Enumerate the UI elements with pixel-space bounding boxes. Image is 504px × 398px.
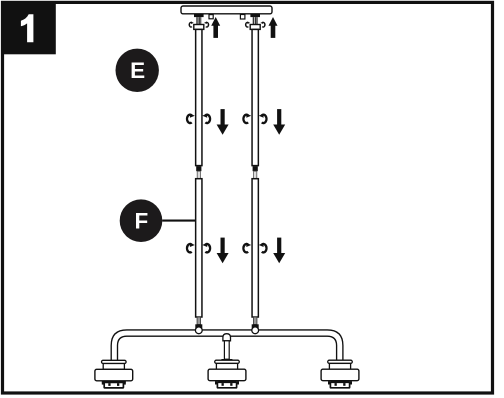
rod 1 joint collar bbox=[196, 166, 201, 171]
down arrow upper at rod 1 bbox=[217, 109, 229, 135]
rod 2 lower segment bbox=[252, 179, 258, 317]
centre stem bbox=[224, 341, 229, 359]
hole square left of rod 2 bbox=[240, 15, 245, 20]
rod 2 threaded stem bbox=[253, 17, 258, 24]
up arrow at rod 2 bbox=[269, 17, 278, 38]
svg-text:E: E bbox=[130, 58, 145, 83]
rod 1 threaded tip bbox=[197, 317, 201, 325]
down arrow upper at rod 2 bbox=[273, 109, 285, 135]
svg-text:F: F bbox=[135, 209, 149, 234]
rod 1 top connector block bbox=[194, 14, 204, 17]
down arrow lower at rod 2 bbox=[273, 238, 285, 264]
rod 2 joint collar bbox=[253, 166, 258, 171]
rod 1 mid rotation arrows lower bbox=[187, 243, 195, 253]
centre stem base flange bbox=[221, 359, 232, 360]
up arrow at rod 1 bbox=[211, 17, 220, 38]
centre stem cap bbox=[223, 334, 231, 341]
rod 1 upper segment bbox=[196, 29, 202, 165]
rod 1 threaded stem bbox=[196, 17, 201, 24]
label E bbox=[116, 49, 159, 92]
fixture frame inner line bbox=[118, 336, 337, 360]
rod 2 ball joint bbox=[252, 327, 259, 334]
rod 1 ball joint bbox=[195, 327, 202, 334]
rod 2 top connector block bbox=[250, 14, 260, 17]
rod 2 threaded tip bbox=[253, 317, 257, 325]
rod 1 joint shaft bbox=[197, 171, 200, 179]
step number 1 bbox=[21, 14, 34, 42]
rod 2 mid rotation arrows upper bbox=[243, 114, 251, 124]
step number box bbox=[4, 1, 56, 54]
rod 2 bottom nut bbox=[252, 324, 259, 328]
rod 2 mid rotation arrows lower bbox=[243, 243, 251, 253]
left lamp holder bbox=[95, 360, 133, 388]
label F bbox=[120, 199, 163, 242]
rod 2 top rotation arrows bbox=[246, 22, 250, 27]
rod 1 hanging nut bbox=[194, 25, 204, 30]
mounting plate bbox=[181, 6, 272, 14]
fixture frame outer line bbox=[111, 330, 343, 361]
rod 2 joint shaft bbox=[254, 171, 257, 179]
hole square right of rod 1 bbox=[209, 15, 213, 19]
right lamp holder bbox=[321, 360, 359, 388]
rod 1 lower segment bbox=[196, 179, 202, 317]
rod 1 top rotation arrows bbox=[189, 22, 193, 27]
centre lamp holder bbox=[208, 360, 246, 388]
leader line from F to rod 1 bbox=[162, 220, 200, 222]
down arrow lower at rod 1 bbox=[217, 238, 229, 264]
rod 2 hanging nut bbox=[250, 25, 260, 30]
rod 1 mid rotation arrows upper bbox=[187, 114, 195, 124]
rod 1 bottom nut bbox=[195, 324, 202, 328]
rod 2 upper segment bbox=[252, 29, 258, 165]
